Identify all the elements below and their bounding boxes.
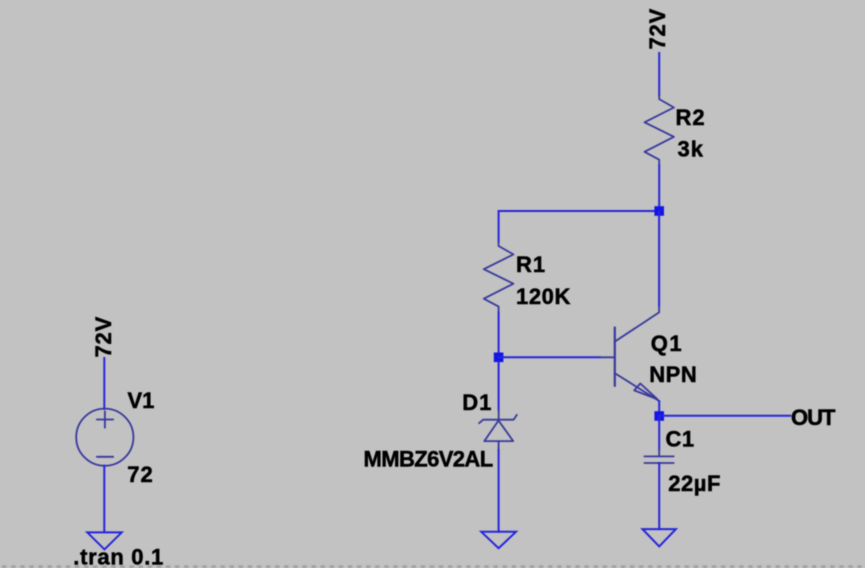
node junction (collector / R2 / R1) (654, 206, 664, 216)
wire base node to D1 (498, 362, 500, 410)
resistor R2 (645, 95, 674, 166)
voltage source V1 (76, 409, 133, 466)
node junction (R1 / D1 / base) (494, 353, 504, 363)
bottom dashed edge (2, 565, 865, 568)
wire V1 bottom to ground (103, 466, 105, 532)
wire 72V to R2 top (658, 53, 660, 95)
wire V1 top to 72V label (103, 358, 105, 409)
svg-text:72: 72 (127, 462, 153, 487)
svg-text:120K: 120K (516, 284, 571, 309)
node junction (emitter / C1 / OUT) (654, 411, 664, 421)
svg-text:72V: 72V (91, 316, 116, 358)
wire Q1 collector to node (658, 211, 660, 306)
wire node to C1 top (658, 416, 660, 449)
svg-text:R2: R2 (676, 105, 706, 130)
ground (C1) (643, 529, 676, 546)
wire output node to OUT label (659, 415, 790, 417)
wire D1 to ground (498, 450, 500, 532)
wire base node to Q1 base (499, 356, 600, 358)
zener diode D1 (479, 410, 517, 450)
svg-text:22µF: 22µF (668, 471, 721, 496)
wire Q1 emitter to output node (658, 401, 660, 416)
ground (D1) (481, 532, 516, 548)
svg-text:MMBZ6V2AL: MMBZ6V2AL (364, 447, 493, 472)
transistor Q1 (600, 306, 660, 402)
resistor R1 (484, 242, 514, 313)
svg-text:3k: 3k (678, 137, 704, 162)
wire C1 bottom to ground (658, 463, 660, 529)
svg-text:OUT: OUT (791, 405, 836, 430)
wire R1 bottom to base node (498, 313, 500, 358)
ground (V1) (87, 532, 121, 549)
svg-text:V1: V1 (128, 388, 155, 413)
svg-text:NPN: NPN (649, 362, 697, 387)
svg-text:C1: C1 (666, 427, 695, 452)
capacitor C1 (644, 449, 673, 463)
svg-text:.tran 0.1: .tran 0.1 (73, 545, 164, 568)
svg-text:72V: 72V (645, 8, 670, 50)
svg-text:Q1: Q1 (651, 331, 683, 356)
wire R2 bottom to collector node (658, 166, 660, 211)
wire top horizontal (node to R1 top) (499, 211, 660, 242)
svg-text:D1: D1 (462, 390, 492, 415)
svg-text:R1: R1 (516, 252, 546, 277)
